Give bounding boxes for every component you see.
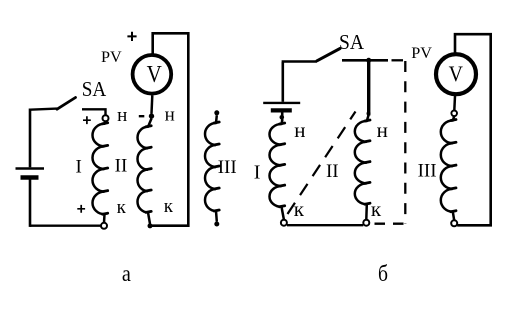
node: junction dot below battery (winding I top): [280, 115, 285, 120]
node: winding III top terminal (open circle): [451, 111, 457, 117]
svg-text:I: I: [76, 156, 82, 177]
svg-text:н: н: [117, 105, 127, 126]
svg-text:PV: PV: [411, 44, 432, 62]
wire: switch fixed contact to coil I top terminal: [82, 109, 106, 115]
voltmeter PV (left): [133, 55, 172, 94]
node: winding III top terminal (dot): [214, 110, 219, 115]
wire: switch fixed contact line: [342, 59, 388, 62]
wire: voltmeter bottom lead: [453, 96, 456, 111]
battery GB (left circuit): [16, 109, 45, 227]
node: dot at winding II top: [367, 112, 371, 116]
svg-text:V: V: [449, 61, 463, 86]
node: coil I top terminal (open circle): [103, 115, 109, 121]
svg-text:V: V: [147, 61, 162, 88]
winding I/II primary coil: [92, 124, 104, 214]
svg-text:I: I: [254, 162, 261, 184]
node: winding I bottom terminal (open circle): [281, 220, 287, 226]
svg-text:н: н: [294, 118, 305, 142]
winding II secondary coil: [138, 127, 149, 213]
wire: battery top to switch (right): [283, 62, 317, 63]
svg-text:к: к: [294, 197, 305, 221]
svg-text:а: а: [122, 261, 131, 286]
wire: voltmeter loop (top, right side down to bottom): [150, 33, 188, 225]
node: winding III bottom terminal (dot): [214, 222, 219, 227]
dashed rectangle link: top dash: [392, 59, 404, 61]
switch SA (right), open blade: [317, 49, 340, 61]
wire: voltmeter loop (right circuit): [455, 34, 491, 225]
wire: battery bottom to coil I bottom terminal: [30, 224, 102, 226]
svg-text:SA: SA: [339, 30, 365, 54]
dashed rectangle link: right side: [404, 61, 406, 224]
wire: voltmeter minus lead to winding II start: [150, 96, 153, 114]
node: junction dot voltmeter/winding II (n): [149, 113, 154, 118]
switch SA (left), open blade: [57, 98, 76, 110]
svg-text:III: III: [218, 157, 237, 178]
svg-text:б: б: [378, 261, 388, 287]
svg-text:PV: PV: [101, 48, 122, 66]
winding I (right circuit): [270, 124, 282, 207]
label + (voltmeter left): [127, 32, 136, 41]
dashed rectangle link: bottom side: [370, 223, 404, 225]
wire: battery top to switch: [30, 109, 57, 110]
node: winding II bottom terminal (dot): [148, 223, 153, 228]
svg-text:SA: SA: [82, 77, 107, 101]
node: winding II bottom terminal (open circle): [363, 220, 369, 226]
wire: thick lead down to winding II: [367, 60, 370, 115]
label + (bottom of winding I): [77, 205, 85, 213]
svg-text:к: к: [164, 196, 174, 217]
winding III (right circuit): [441, 121, 453, 212]
svg-text:к: к: [117, 197, 127, 218]
battery GB (right circuit): [263, 62, 300, 121]
dashed diagonal II link: [288, 112, 356, 215]
node: junction dot at winding II top wire: [366, 58, 371, 63]
wire: bottom wire between winding I and II terminals: [287, 224, 363, 226]
svg-text:III: III: [418, 161, 437, 182]
label + (top of winding I): [83, 116, 91, 124]
node: coil I bottom terminal (open circle): [101, 223, 107, 229]
label - (minus): [139, 115, 145, 117]
winding III (left circuit, unconnected): [205, 123, 216, 211]
winding II (right circuit): [355, 121, 367, 204]
node: winding III bottom terminal (open circle): [451, 220, 457, 226]
voltmeter PV (right): [436, 54, 476, 94]
svg-text:II: II: [115, 156, 128, 177]
svg-text:II: II: [326, 161, 339, 182]
svg-text:н: н: [165, 104, 175, 125]
svg-text:к: к: [371, 197, 382, 221]
svg-text:н: н: [377, 118, 388, 142]
